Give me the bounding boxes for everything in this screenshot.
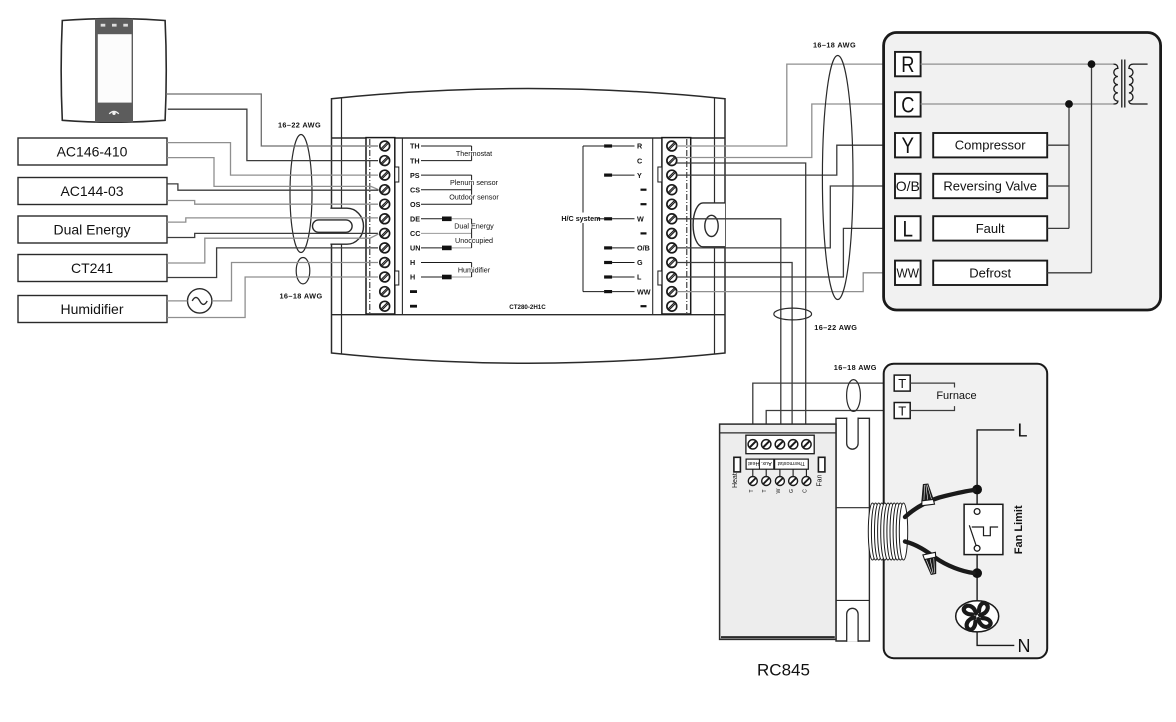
svg-text:Dual Energy: Dual Energy xyxy=(454,222,494,231)
svg-text:T: T xyxy=(898,403,906,418)
svg-text:TH: TH xyxy=(410,142,420,151)
svg-text:C: C xyxy=(802,489,808,493)
svg-text:16–18 AWG: 16–18 AWG xyxy=(813,40,856,49)
svg-text:H: H xyxy=(410,258,415,267)
svg-text:Reversing Valve: Reversing Valve xyxy=(943,179,1037,194)
svg-text:W: W xyxy=(776,488,782,493)
svg-text:16–22 AWG: 16–22 AWG xyxy=(278,121,321,130)
svg-text:AC146-410: AC146-410 xyxy=(57,144,128,160)
svg-text:Humidifier: Humidifier xyxy=(60,301,123,317)
svg-text:G: G xyxy=(637,258,643,267)
svg-text:DE: DE xyxy=(410,215,420,224)
svg-text:C: C xyxy=(901,92,914,117)
svg-text:Outdoor sensor: Outdoor sensor xyxy=(449,193,499,202)
svg-text:Thermostat: Thermostat xyxy=(777,460,805,466)
svg-text:N: N xyxy=(1018,636,1031,656)
svg-text:H: H xyxy=(410,273,415,282)
svg-text:H/C system: H/C system xyxy=(561,214,600,223)
svg-text:RC845: RC845 xyxy=(757,661,810,680)
svg-text:O/B: O/B xyxy=(637,244,650,253)
svg-text:Defrost: Defrost xyxy=(969,265,1011,280)
svg-text:16–22 AWG: 16–22 AWG xyxy=(814,323,857,332)
svg-text:Furnace: Furnace xyxy=(936,390,976,402)
svg-text:G: G xyxy=(789,489,795,493)
svg-text:L: L xyxy=(903,216,914,241)
svg-text:WW: WW xyxy=(897,266,920,281)
svg-text:AC144-03: AC144-03 xyxy=(60,183,123,199)
svg-text:TH: TH xyxy=(410,156,420,165)
svg-text:CC: CC xyxy=(410,229,420,238)
svg-text:Fan Limit: Fan Limit xyxy=(1013,505,1025,554)
svg-text:Compressor: Compressor xyxy=(955,138,1026,153)
svg-text:WW: WW xyxy=(637,287,651,296)
svg-text:W: W xyxy=(637,215,644,224)
svg-text:Y: Y xyxy=(902,133,915,158)
svg-text:16–18 AWG: 16–18 AWG xyxy=(834,363,877,372)
svg-text:Unoccupied: Unoccupied xyxy=(455,236,493,245)
svg-text:Heat: Heat xyxy=(732,473,739,488)
svg-text:Dual Energy: Dual Energy xyxy=(53,222,130,238)
svg-text:C: C xyxy=(637,156,642,165)
svg-text:CT280-2H1C: CT280-2H1C xyxy=(509,304,546,311)
svg-text:Aux. Heat: Aux. Heat xyxy=(748,460,772,466)
svg-text:R: R xyxy=(637,142,643,151)
svg-text:PS: PS xyxy=(410,171,420,180)
svg-text:CT241: CT241 xyxy=(71,260,113,276)
svg-text:Fault: Fault xyxy=(976,221,1005,236)
svg-text:Plenum sensor: Plenum sensor xyxy=(450,178,499,187)
svg-text:L: L xyxy=(1018,421,1028,441)
svg-text:UN: UN xyxy=(410,244,420,253)
svg-text:L: L xyxy=(637,273,642,282)
svg-text:O/B: O/B xyxy=(896,178,920,194)
svg-text:Fan: Fan xyxy=(817,474,824,486)
svg-text:T: T xyxy=(898,376,906,391)
svg-text:CS: CS xyxy=(410,185,420,194)
svg-text:Thermostat: Thermostat xyxy=(456,149,492,158)
svg-text:R: R xyxy=(901,52,914,77)
svg-text:OS: OS xyxy=(410,200,421,209)
svg-text:16–18 AWG: 16–18 AWG xyxy=(279,292,322,301)
svg-text:Humidifier: Humidifier xyxy=(458,265,491,274)
svg-text:Y: Y xyxy=(637,171,642,180)
